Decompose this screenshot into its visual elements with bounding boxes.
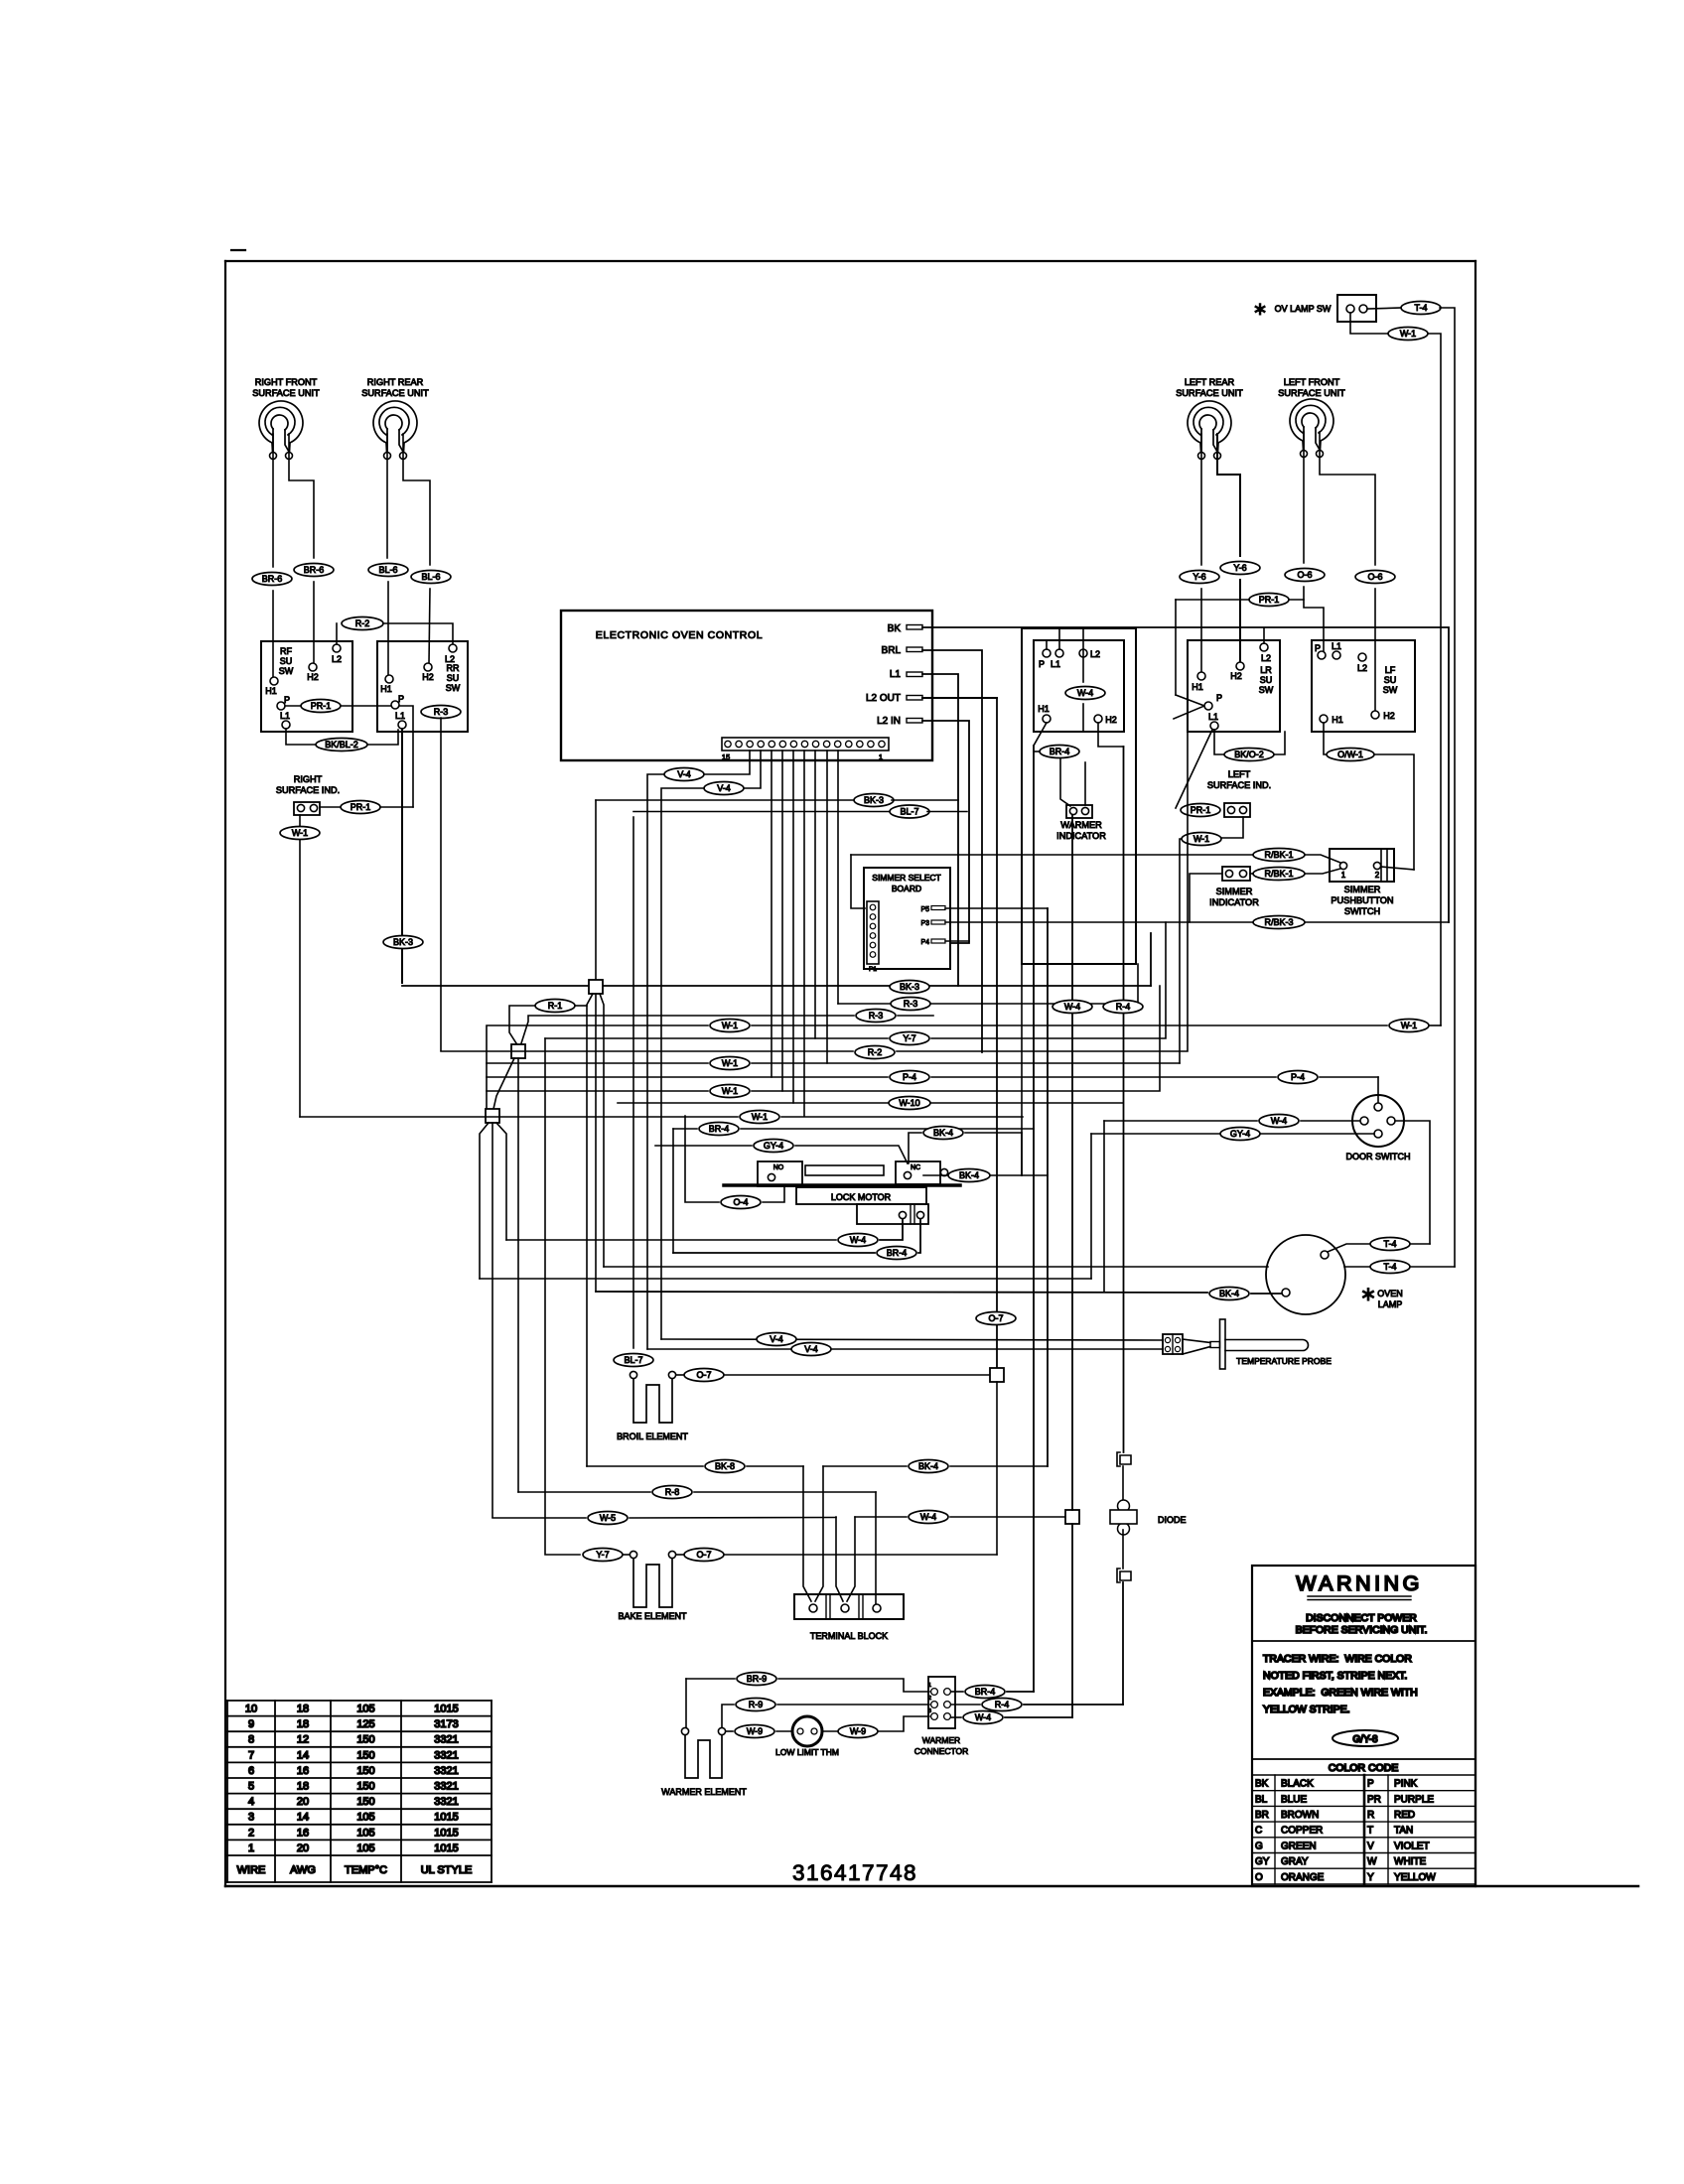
wire V-4b left drop [661, 788, 704, 1339]
label W-1 (row right) [1389, 1020, 1441, 1032]
svg-text:1015: 1015 [434, 1704, 458, 1715]
connector P1 (simmer board) [867, 901, 879, 973]
wire LF coil left lead [1303, 432, 1305, 563]
svg-text:H2: H2 [1383, 711, 1395, 721]
wire O-7 broil row [676, 1374, 990, 1376]
wire RF P to PR-1 [285, 705, 301, 707]
svg-text:7: 7 [248, 1749, 254, 1761]
svg-text:SWITCH: SWITCH [1344, 906, 1380, 916]
label BR-4 (row) [699, 1123, 739, 1136]
svg-text:BK-3: BK-3 [393, 937, 413, 947]
wire V-4 probe upper [661, 1339, 1163, 1340]
label W-4 (warmer) [963, 1711, 1003, 1724]
label W-5 [588, 1512, 628, 1525]
junction J4 [990, 1368, 1004, 1382]
label BL-6 left [368, 564, 408, 577]
wire ind to PR-1 [320, 806, 341, 808]
label R-3 (row b) [521, 1010, 933, 1044]
wire P5/BK-4 vertical [1047, 908, 1049, 1466]
svg-text:LEFT FRONT: LEFT FRONT [1284, 377, 1340, 387]
wire BK-4 lock row a [909, 1133, 1022, 1175]
svg-text:O-7: O-7 [696, 1370, 711, 1380]
wire ind W-1 drop [299, 815, 301, 827]
switch lock NC [896, 1161, 940, 1184]
pin BRL [882, 645, 922, 656]
text SIMMER INDICATOR [1209, 887, 1259, 907]
svg-text:3321: 3321 [434, 1734, 458, 1746]
wire LR L2 stub [1263, 628, 1265, 643]
label W-4 (door) [1259, 1115, 1299, 1128]
wire BR-9 left drop [685, 1679, 687, 1727]
svg-text:16: 16 [297, 1827, 309, 1839]
svg-text:GY: GY [1255, 1856, 1270, 1867]
svg-text:W-4: W-4 [1271, 1116, 1287, 1126]
svg-text:T-4: T-4 [1414, 303, 1427, 313]
wire LR L1 drop to PR-1 [1176, 730, 1212, 808]
svg-text:TAN: TAN [1394, 1826, 1413, 1837]
svg-text:AWG: AWG [290, 1864, 316, 1876]
wire pin11 down [837, 751, 839, 1004]
svg-text:SW: SW [1259, 685, 1274, 695]
wire W-1 row c [487, 986, 1160, 1091]
svg-text:BK-4: BK-4 [933, 1128, 953, 1138]
wire R-4 vertical [1123, 747, 1125, 1452]
svg-text:P5: P5 [920, 906, 929, 913]
svg-text:W-1: W-1 [1401, 1021, 1417, 1030]
svg-text:W-9: W-9 [850, 1726, 866, 1736]
wire BK-4 lock row b [923, 1174, 1048, 1176]
connector WARMER CONNECTOR [914, 1677, 969, 1756]
svg-text:COLOR CODE: COLOR CODE [1329, 1762, 1399, 1774]
node lock NC right [940, 1168, 947, 1175]
svg-text:BEFORE SERVICING UNIT.: BEFORE SERVICING UNIT. [1296, 1624, 1428, 1636]
svg-text:NC: NC [911, 1164, 920, 1171]
thermostat LOW LIMIT THM [775, 1716, 839, 1757]
wire R-2 to RR L2 [383, 623, 453, 644]
wire W-4 below [1082, 704, 1084, 732]
svg-text:V-4: V-4 [770, 1334, 783, 1344]
label PR-1 (surface sw) [301, 700, 341, 713]
svg-text:PR-1: PR-1 [1191, 805, 1211, 815]
wire PR-1 branch down [400, 706, 413, 807]
wire GY-4 door row [1091, 1133, 1374, 1135]
table color code [1252, 1775, 1475, 1884]
label O-7 (on broil vertical) [976, 1312, 1016, 1325]
wire RF L2 up [336, 623, 338, 644]
lamp OVEN LAMP [1266, 1235, 1345, 1314]
svg-text:H2: H2 [1230, 671, 1242, 681]
label W-10 [889, 1097, 930, 1110]
svg-text:W-1: W-1 [722, 1058, 738, 1068]
svg-text:WARNING: WARNING [1296, 1571, 1423, 1595]
svg-text:RIGHT REAR: RIGHT REAR [367, 377, 424, 387]
wire BK-4 lamp row [596, 1292, 1282, 1294]
svg-text:INDICATOR: INDICATOR [1056, 831, 1106, 841]
svg-text:W-1: W-1 [1193, 834, 1209, 844]
label O/W-1 [1327, 749, 1374, 761]
wire J1 leg center [595, 994, 597, 1292]
drawing border frame [225, 261, 1638, 1886]
coil RIGHT REAR SURFACE UNIT [361, 377, 429, 460]
svg-text:BL-7: BL-7 [624, 1355, 642, 1365]
wire Y-7 bake [545, 1038, 630, 1555]
label BL-7 (broil) [614, 1354, 653, 1367]
label W-4 (on vertical) [1052, 1001, 1092, 1014]
svg-text:H1: H1 [1038, 704, 1050, 714]
label W-4 (warm row) [909, 1511, 948, 1524]
svg-text:1015: 1015 [434, 1843, 458, 1854]
wire pin7 down [792, 751, 794, 1103]
wire W-4 door row [1104, 1120, 1360, 1122]
label BL-6 right [411, 571, 451, 584]
label T-4 (lamp b) [1370, 1261, 1410, 1274]
wire J4 down [996, 1382, 998, 1555]
wire W-1 row b [487, 1062, 1180, 1064]
box lock motor lower [857, 1204, 928, 1224]
svg-text:125: 125 [356, 1718, 374, 1730]
svg-text:COPPER: COPPER [1281, 1826, 1323, 1837]
label BK-3 (eoc) [596, 794, 958, 807]
svg-text:L2: L2 [1090, 649, 1100, 659]
svg-text:BK-4: BK-4 [1219, 1289, 1239, 1298]
svg-text:14: 14 [297, 1812, 309, 1824]
wire warmer H1 to BR-4 [1034, 723, 1047, 746]
svg-text:T-4: T-4 [1383, 1239, 1396, 1249]
label W-1 (row c) [710, 1085, 750, 1098]
wire GY-4 long row [480, 1278, 1091, 1280]
wire BK-8 row [587, 1465, 1048, 1467]
label GY-4 (door) [1220, 1128, 1260, 1141]
svg-text:18: 18 [297, 1704, 309, 1715]
svg-text:SURFACE UNIT: SURFACE UNIT [1176, 388, 1243, 398]
svg-text:R-3: R-3 [869, 1011, 884, 1021]
svg-text:O-7: O-7 [696, 1550, 711, 1560]
svg-text:UL STYLE: UL STYLE [421, 1864, 473, 1876]
label BR-4 (warmer) [965, 1686, 1005, 1699]
text WARMER INDICATOR [1056, 820, 1106, 841]
connector below diode [1117, 1569, 1131, 1582]
svg-text:GY-4: GY-4 [764, 1141, 783, 1151]
coil LEFT REAR SURFACE UNIT [1176, 377, 1243, 460]
svg-text:BLACK: BLACK [1281, 1779, 1314, 1790]
svg-text:LAMP: LAMP [1378, 1299, 1403, 1309]
svg-text:Y-7: Y-7 [903, 1033, 915, 1043]
svg-text:ORANGE: ORANGE [1281, 1872, 1325, 1883]
svg-text:BK/O-2: BK/O-2 [1234, 750, 1264, 759]
label BR-6 left [252, 573, 292, 586]
svg-text:3: 3 [248, 1812, 254, 1824]
svg-text:SIMMER SELECT: SIMMER SELECT [872, 873, 940, 883]
svg-text:PR-1: PR-1 [1259, 595, 1280, 605]
label P-4 (right) [1278, 1071, 1318, 1084]
wire W-4 door drop [1103, 1121, 1105, 1292]
wire J3 leg W-5 [491, 1123, 493, 1517]
text OVEN LAMP [1360, 1284, 1403, 1309]
switch SIMMER PUSHBUTTON [1330, 849, 1394, 882]
wire LR coil right lead [1217, 434, 1240, 556]
pin L1 [890, 669, 922, 680]
svg-text:W-1: W-1 [1400, 329, 1416, 339]
wire BR-9 row [686, 1679, 929, 1692]
wire L2 OUT pin right [922, 697, 997, 699]
label W-4 (lock) [838, 1234, 878, 1247]
wire J3 leg GY long [480, 1123, 489, 1279]
svg-text:150: 150 [356, 1765, 374, 1777]
svg-text:R-4: R-4 [995, 1700, 1010, 1709]
wire Y-6 to LR H2 [1239, 580, 1241, 662]
svg-text:BAKE ELEMENT: BAKE ELEMENT [618, 1611, 687, 1621]
svg-text:GREEN: GREEN [1281, 1841, 1317, 1851]
wire W-1 down right side [1428, 334, 1441, 1025]
switch LR SU SW [1188, 640, 1280, 732]
svg-text:W-4: W-4 [850, 1235, 866, 1245]
label R-2 (top) [342, 617, 383, 630]
element BAKE ELEMENT [618, 1551, 687, 1621]
svg-text:14: 14 [297, 1749, 309, 1761]
svg-text:SIMMER: SIMMER [1216, 887, 1253, 896]
coil LEFT FRONT SURFACE UNIT [1278, 377, 1345, 458]
label R/BK-1 upper [851, 849, 1340, 864]
svg-text:WHITE: WHITE [1394, 1856, 1427, 1867]
svg-text:PR-1: PR-1 [351, 802, 371, 812]
label Y-6 left [1180, 571, 1219, 584]
bracket lock pedestal [805, 1165, 884, 1175]
label R/BK-3 (row) [1253, 916, 1305, 929]
label PR-1 (left front) [1176, 594, 1304, 696]
wire W-1 down left side [299, 840, 301, 1117]
wire RF coil left lead [272, 434, 274, 567]
element BROIL ELEMENT [617, 1371, 688, 1441]
pin BK [888, 623, 922, 634]
svg-text:10: 10 [245, 1704, 257, 1715]
label W-1 (right ind) [280, 827, 320, 840]
wire R-4 warmer row [951, 1704, 1123, 1706]
svg-text:15: 15 [722, 752, 730, 761]
label BK-4 (lock a) [923, 1127, 963, 1140]
wire W-1 row d [300, 1116, 1023, 1118]
label BK-4 (lock b) [948, 1169, 990, 1182]
svg-text:BR-4: BR-4 [975, 1687, 996, 1697]
svg-text:V: V [1367, 1841, 1374, 1851]
svg-text:V-4: V-4 [717, 783, 731, 793]
wire GY-4 drop [1090, 1134, 1092, 1279]
label BK/O-2 [1224, 749, 1274, 761]
wire PR-1 right [380, 806, 413, 808]
svg-text:∗: ∗ [1252, 299, 1267, 319]
svg-text:GY-4: GY-4 [1230, 1129, 1250, 1139]
svg-text:SU: SU [447, 673, 460, 683]
svg-text:P-4: P-4 [1291, 1072, 1305, 1082]
svg-text:G: G [1255, 1841, 1263, 1851]
svg-text:16: 16 [297, 1765, 309, 1777]
svg-text:L1: L1 [890, 669, 902, 680]
wire O-7 bake row [676, 1554, 997, 1556]
wire BK-3 long row [402, 933, 1151, 986]
svg-text:YELLOW STRIPE.: YELLOW STRIPE. [1263, 1704, 1350, 1715]
wire T-4 lamp lower [604, 1266, 1455, 1268]
wire R-2 row [441, 732, 1188, 1051]
svg-text:RED: RED [1394, 1810, 1415, 1821]
wire Y-7 row [545, 922, 1166, 1038]
svg-text:GRAY: GRAY [1281, 1856, 1309, 1867]
page tick mark [231, 249, 245, 251]
label W-9 (left) [735, 1725, 774, 1738]
wire W-1 left ind drop [1180, 839, 1182, 1063]
svg-text:TEMPERATURE PROBE: TEMPERATURE PROBE [1236, 1356, 1332, 1366]
svg-text:P1: P1 [869, 966, 877, 973]
svg-text:R-9: R-9 [749, 1700, 764, 1709]
label T-4 (lamp a) [1370, 1238, 1410, 1251]
label BL-7 (eoc) [633, 805, 967, 818]
svg-text:EXAMPLE: GREEN WIRE WITH: EXAMPLE: GREEN WIRE WITH [1263, 1687, 1418, 1699]
svg-text:L1: L1 [280, 711, 290, 721]
wire L2 OUT vertical to broil junction [996, 698, 998, 1371]
svg-text:BROIL ELEMENT: BROIL ELEMENT [617, 1432, 688, 1441]
svg-text:O-6: O-6 [1367, 572, 1382, 582]
junction J5 [1065, 1510, 1079, 1524]
svg-text:LOCK MOTOR: LOCK MOTOR [831, 1192, 892, 1202]
svg-text:L1: L1 [1051, 659, 1060, 669]
table wire gauge [227, 1701, 491, 1882]
svg-text:SURFACE UNIT: SURFACE UNIT [1278, 388, 1345, 398]
junction J3 [486, 1109, 499, 1123]
wire W-10 row [618, 1102, 1123, 1104]
svg-text:VIOLET: VIOLET [1394, 1841, 1430, 1851]
label PR-1 (right ind) [341, 801, 380, 814]
wire T-4 down right side [1440, 308, 1455, 1267]
svg-text:1015: 1015 [434, 1827, 458, 1839]
svg-text:BK: BK [888, 623, 902, 634]
wire diag to pushbutton 2 [1381, 867, 1414, 870]
wire J3 leg W-4 lock [496, 1123, 506, 1240]
svg-text:W-1: W-1 [292, 828, 308, 838]
svg-text:Y-6: Y-6 [1233, 563, 1246, 573]
svg-text:1: 1 [248, 1843, 254, 1854]
svg-text:W-4: W-4 [920, 1512, 936, 1522]
svg-text:3: 3 [928, 1708, 931, 1714]
svg-text:3173: 3173 [434, 1718, 458, 1730]
svg-text:LOW LIMIT THM: LOW LIMIT THM [775, 1747, 839, 1757]
wire R/BK-1 into select board [851, 855, 865, 908]
wire P5 right [945, 907, 1048, 909]
svg-text:R: R [1367, 1810, 1374, 1821]
wire left ind W-1 [1221, 817, 1243, 838]
wire R-3 down [440, 718, 442, 1050]
svg-text:BROWN: BROWN [1281, 1810, 1319, 1821]
svg-text:P3: P3 [920, 920, 929, 927]
wire J2 leg R-8 [517, 1058, 519, 1492]
svg-text:SURFACE IND.: SURFACE IND. [1207, 780, 1271, 790]
wire BK-3 drop to junction [595, 800, 597, 981]
svg-text:BK-4: BK-4 [918, 1461, 938, 1471]
svg-text:BK-3: BK-3 [900, 982, 919, 992]
label R-4 (warmer) [982, 1699, 1022, 1711]
svg-text:18: 18 [297, 1781, 309, 1793]
wire warmer left edge ext [1021, 964, 1023, 1175]
svg-text:2: 2 [928, 1696, 931, 1702]
svg-text:1: 1 [1341, 871, 1346, 880]
wire O-6 to LF H2 [1374, 589, 1376, 711]
svg-text:T-4: T-4 [1383, 1262, 1396, 1272]
wire BR-4 vertical [1033, 746, 1035, 1692]
svg-text:W-10: W-10 [899, 1098, 919, 1108]
label P-4 (left) [890, 1071, 929, 1084]
svg-text:OVEN: OVEN [1377, 1289, 1403, 1298]
coil RIGHT FRONT SURFACE UNIT [252, 377, 320, 460]
label R-8 [652, 1486, 692, 1499]
label W-1 (row b) [710, 1057, 750, 1070]
svg-text:BR: BR [1255, 1810, 1269, 1821]
box WARNING [1252, 1566, 1475, 1886]
wire BR-4 row [673, 1128, 1034, 1130]
svg-text:W-4: W-4 [1077, 688, 1093, 698]
wire door right pin [1395, 1121, 1430, 1244]
wire RF coil right lead [289, 434, 314, 558]
svg-text:RF: RF [280, 646, 292, 656]
label W-4 (warmer ind) [1065, 687, 1105, 700]
svg-text:Y-6: Y-6 [1193, 572, 1205, 582]
svg-text:T: T [1367, 1826, 1373, 1837]
svg-text:PURPLE: PURPLE [1394, 1794, 1434, 1805]
svg-text:BK-4: BK-4 [959, 1170, 979, 1180]
svg-text:PINK: PINK [1394, 1779, 1418, 1790]
label O-4 [721, 1196, 761, 1209]
wire R-8 row [518, 1491, 876, 1493]
label BK/BL-2 [316, 739, 367, 751]
indicator RIGHT SURFACE IND. [276, 774, 340, 815]
svg-text:R/BK-1: R/BK-1 [1264, 869, 1293, 879]
svg-text:Y: Y [1367, 1872, 1374, 1883]
svg-text:BL-7: BL-7 [900, 807, 918, 817]
label O-6 right [1355, 571, 1395, 584]
svg-text:NO: NO [773, 1164, 784, 1171]
svg-text:9: 9 [248, 1718, 254, 1730]
svg-text:BL: BL [1255, 1794, 1268, 1805]
wire BL-7 drop [632, 817, 634, 1348]
wire pin8 down [803, 751, 805, 1116]
svg-text:L2 OUT: L2 OUT [866, 693, 901, 704]
svg-text:SIMMER: SIMMER [1344, 885, 1381, 894]
svg-text:BR-4: BR-4 [709, 1124, 730, 1134]
wire diode lower stub [1122, 1530, 1124, 1569]
connector SIMMER INDICATOR [1222, 867, 1250, 881]
label Y-7 (bake) [583, 1549, 623, 1562]
svg-text:2: 2 [248, 1827, 254, 1839]
svg-text:R/BK-3: R/BK-3 [1264, 917, 1293, 927]
svg-text:TRACER WIRE: WIRE COLOR: TRACER WIRE: WIRE COLOR [1263, 1653, 1412, 1665]
label BK-4 (lamp) [1209, 1288, 1249, 1300]
wire R-8 drop to terminal [875, 1492, 877, 1604]
svg-text:5: 5 [248, 1781, 254, 1793]
wire warmer L2 drop [1082, 628, 1084, 682]
pin P3 [920, 920, 945, 927]
svg-text:ELECTRONIC OVEN CONTROL: ELECTRONIC OVEN CONTROL [596, 629, 763, 641]
svg-text:LEFT REAR: LEFT REAR [1185, 377, 1235, 387]
label V-4 (probe b) [791, 1343, 831, 1356]
svg-text:CONNECTOR: CONNECTOR [914, 1746, 969, 1756]
wire W-9 row b [822, 1716, 929, 1731]
label V-4 (eoc b) [704, 782, 744, 795]
wire terminal V2 [836, 1517, 855, 1601]
wire BR-4 to connector [1060, 758, 1070, 806]
wire BR-4 warmer row [951, 1691, 1034, 1693]
svg-text:V-4: V-4 [677, 769, 691, 779]
label O-7 (broil) [684, 1369, 724, 1382]
wire BK/BL-2 to RR L1 [367, 730, 398, 745]
wire W-4 lock row [506, 1219, 903, 1240]
svg-text:L2: L2 [332, 654, 342, 664]
svg-text:105: 105 [356, 1812, 374, 1824]
